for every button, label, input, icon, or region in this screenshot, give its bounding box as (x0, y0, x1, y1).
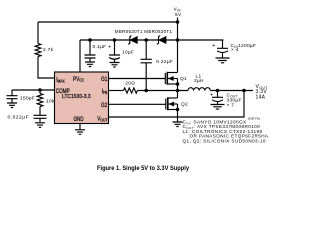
svg-text:5V: 5V (175, 12, 182, 18)
ground CIN (216, 58, 230, 63)
node 10uF/rail2 junction (113, 38, 117, 42)
svg-text:G1: G1 (101, 76, 107, 83)
transistor Q2 (166, 91, 178, 123)
wire rail2 PVCC/diode rail (80, 39, 224, 41)
svg-text:G2: G2 (101, 102, 107, 109)
capacitor C 0.022uF (34, 115, 47, 122)
svg-text:Figure 1. Single 5V to 3.3V Su: Figure 1. Single 5V to 3.3V Supply (97, 165, 189, 172)
svg-text:10µF: 10µF (122, 50, 134, 56)
ground IC (75, 130, 85, 135)
node VIN/rail1 junction (176, 20, 180, 24)
svg-text:PVCC: PVCC (73, 76, 84, 83)
node switch node SW (176, 89, 180, 93)
node VIN/rail2 junction (176, 38, 180, 42)
wire VIN vertical (177, 18, 179, 73)
svg-text:20Ω: 20Ω (125, 80, 135, 86)
capacitor C 10uF electrolytic (109, 40, 120, 62)
node diode junction/0.22uF top (144, 38, 148, 42)
node IFB/0.22uF bottom junction (144, 89, 148, 93)
wire switch rail (138, 90, 189, 92)
svg-text:× 7: × 7 (227, 103, 235, 109)
capacitor CIN electrolytic (217, 40, 228, 58)
svg-text:MBR0530T1: MBR0530T1 (144, 29, 172, 34)
svg-text:0.1µF: 0.1µF (93, 44, 107, 50)
capacitor 0.1uF (85, 40, 96, 62)
resistor R 10k (37, 90, 43, 115)
svg-text:150pF: 150pF (20, 96, 35, 102)
ground 10uF (110, 63, 120, 68)
svg-text:10k: 10k (46, 99, 55, 105)
capacitor COUT electrolytic (212, 91, 223, 105)
transistor Q1 (165, 72, 177, 91)
ground Q2 (173, 122, 183, 127)
svg-text:+: + (212, 43, 216, 49)
wire G2 (109, 103, 166, 105)
ground 150pF (7, 103, 17, 108)
svg-text:1530 F01: 1530 F01 (248, 117, 261, 121)
IC U1 LTC1530-3.3 (55, 72, 109, 124)
diode D1 MBR0530T1 (128, 36, 137, 44)
wire output rail (210, 90, 253, 92)
resistor R 20ohm (124, 88, 138, 93)
svg-text:IMAX: IMAX (56, 77, 65, 84)
node COMP/10k junction (38, 88, 42, 92)
svg-text:LTC1530-3.3: LTC1530-3.3 (62, 94, 91, 100)
wire top rail1 (38, 21, 178, 23)
svg-text:VOUT: VOUT (97, 116, 108, 123)
svg-text:Q1: Q1 (180, 76, 187, 82)
svg-text:2.7k: 2.7k (43, 47, 54, 53)
ground COUT (211, 105, 225, 110)
svg-text:+: + (108, 45, 111, 51)
svg-text:Q1, Q2: SILICONIX SUD50N03-10: Q1, Q2: SILICONIX SUD50N03-10 (183, 138, 266, 143)
inductor L1 (188, 88, 210, 91)
wire PVCC riser (79, 40, 81, 72)
wire G1 (109, 78, 166, 80)
wire VOUT sense (109, 91, 245, 118)
svg-text:0.22µF: 0.22µF (156, 59, 173, 65)
resistor R 2.7k (35, 22, 54, 78)
svg-text:IFB: IFB (102, 88, 108, 95)
node COUT/output rail junction (216, 89, 220, 93)
ground 0.022uF (35, 123, 45, 128)
svg-text:0.022µF: 0.022µF (8, 115, 30, 121)
capacitor C 150pF (7, 90, 18, 103)
node VOUT sense junction (242, 89, 246, 93)
node 0.1uF/rail2 junction (88, 38, 92, 42)
capacitor C 0.22uF with drop wire (141, 40, 152, 91)
svg-text:2µH: 2µH (194, 78, 204, 84)
diode D2 MBR0530T1 (157, 36, 166, 44)
svg-text:14A: 14A (256, 95, 266, 101)
wire IFB / switch rail left (109, 90, 124, 92)
notes block (183, 120, 269, 144)
svg-text:× 4: × 4 (231, 47, 239, 53)
node Q2 source/body junction (176, 108, 180, 112)
wire IC GND pin (79, 124, 81, 130)
node Q1 source/body junction (176, 82, 180, 86)
svg-text:Q2: Q2 (181, 102, 188, 108)
svg-text:MBR0530T1: MBR0530T1 (115, 29, 143, 34)
ground 0.1uF (85, 62, 95, 67)
svg-text:GND: GND (74, 117, 84, 124)
wire COMP (12, 89, 55, 91)
svg-text:+: + (210, 93, 214, 99)
